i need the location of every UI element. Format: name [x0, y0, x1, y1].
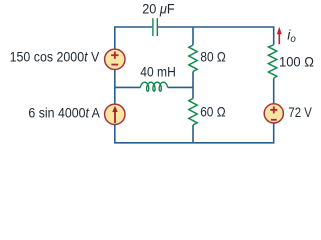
wire left bottom — [114, 124, 116, 144]
wire right bottom — [273, 123, 275, 144]
V2 plus sign — [270, 106, 277, 119]
current arrow io — [277, 27, 282, 45]
wire top-right segment — [158, 27, 274, 45]
svg-text:80 Ω: 80 Ω — [200, 49, 225, 65]
wire right mid — [273, 78, 275, 104]
resistor R2 60ohm — [189, 99, 197, 126]
capacitor C1 20uF — [153, 18, 157, 36]
svg-text:io: io — [287, 27, 296, 45]
wire middle branch top — [192, 27, 194, 45]
I1 arrow — [112, 106, 117, 123]
svg-text:150 cos 2000t V: 150 cos 2000t V — [10, 48, 100, 64]
svg-text:20 μF: 20 μF — [142, 1, 174, 17]
svg-text:6 sin 4000t A: 6 sin 4000t A — [28, 105, 100, 121]
wire inductor branch right — [168, 86, 193, 88]
resistor R1 80ohm — [189, 45, 197, 72]
wire bottom — [114, 142, 274, 144]
inductor L1 40mH — [140, 82, 167, 91]
wire inductor branch left — [115, 86, 141, 88]
voltage source V2 72V — [264, 104, 283, 123]
current source I1 6sin — [105, 104, 125, 124]
svg-text:60 Ω: 60 Ω — [200, 104, 225, 120]
svg-text:40 mH: 40 mH — [140, 64, 176, 80]
V2 minus sign — [271, 119, 277, 121]
wire between sources — [114, 70, 116, 105]
wire middle branch bottom — [192, 125, 194, 144]
svg-text:72 V: 72 V — [288, 104, 312, 120]
V1 minus sign — [111, 64, 118, 66]
svg-text:100 Ω: 100 Ω — [279, 53, 314, 69]
voltage source V1 150cos — [105, 49, 125, 69]
wire middle branch mid — [192, 72, 194, 99]
wire top-left segment — [115, 27, 152, 50]
resistor R3 100ohm — [268, 45, 276, 79]
V1 plus sign — [111, 52, 118, 65]
